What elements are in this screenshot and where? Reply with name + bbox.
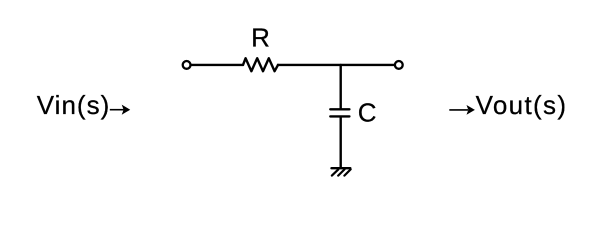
ground hatch 3 — [344, 169, 350, 175]
wire resistor to output terminal (through node A) — [278, 64, 395, 66]
svg-text:Vin(s): Vin(s) — [37, 90, 110, 120]
wire capacitor to ground — [340, 118, 342, 168]
wire input terminal to resistor — [191, 64, 243, 66]
output terminal (right open circle) — [395, 61, 403, 69]
capacitor C1 top plate — [330, 108, 349, 110]
svg-text:Vout(s): Vout(s) — [476, 90, 568, 120]
svg-text:R: R — [251, 23, 270, 53]
resistor R1 — [243, 58, 278, 71]
wire node A down to capacitor — [340, 65, 342, 108]
ground hatch 1 — [332, 169, 338, 175]
ground bar — [332, 167, 351, 169]
output arrow — [449, 105, 475, 115]
ground hatch 2 — [338, 169, 344, 175]
capacitor C1 bottom plate — [330, 115, 349, 117]
input arrow — [110, 105, 130, 115]
input terminal (left open circle) — [183, 61, 191, 69]
svg-text:C: C — [358, 98, 377, 128]
